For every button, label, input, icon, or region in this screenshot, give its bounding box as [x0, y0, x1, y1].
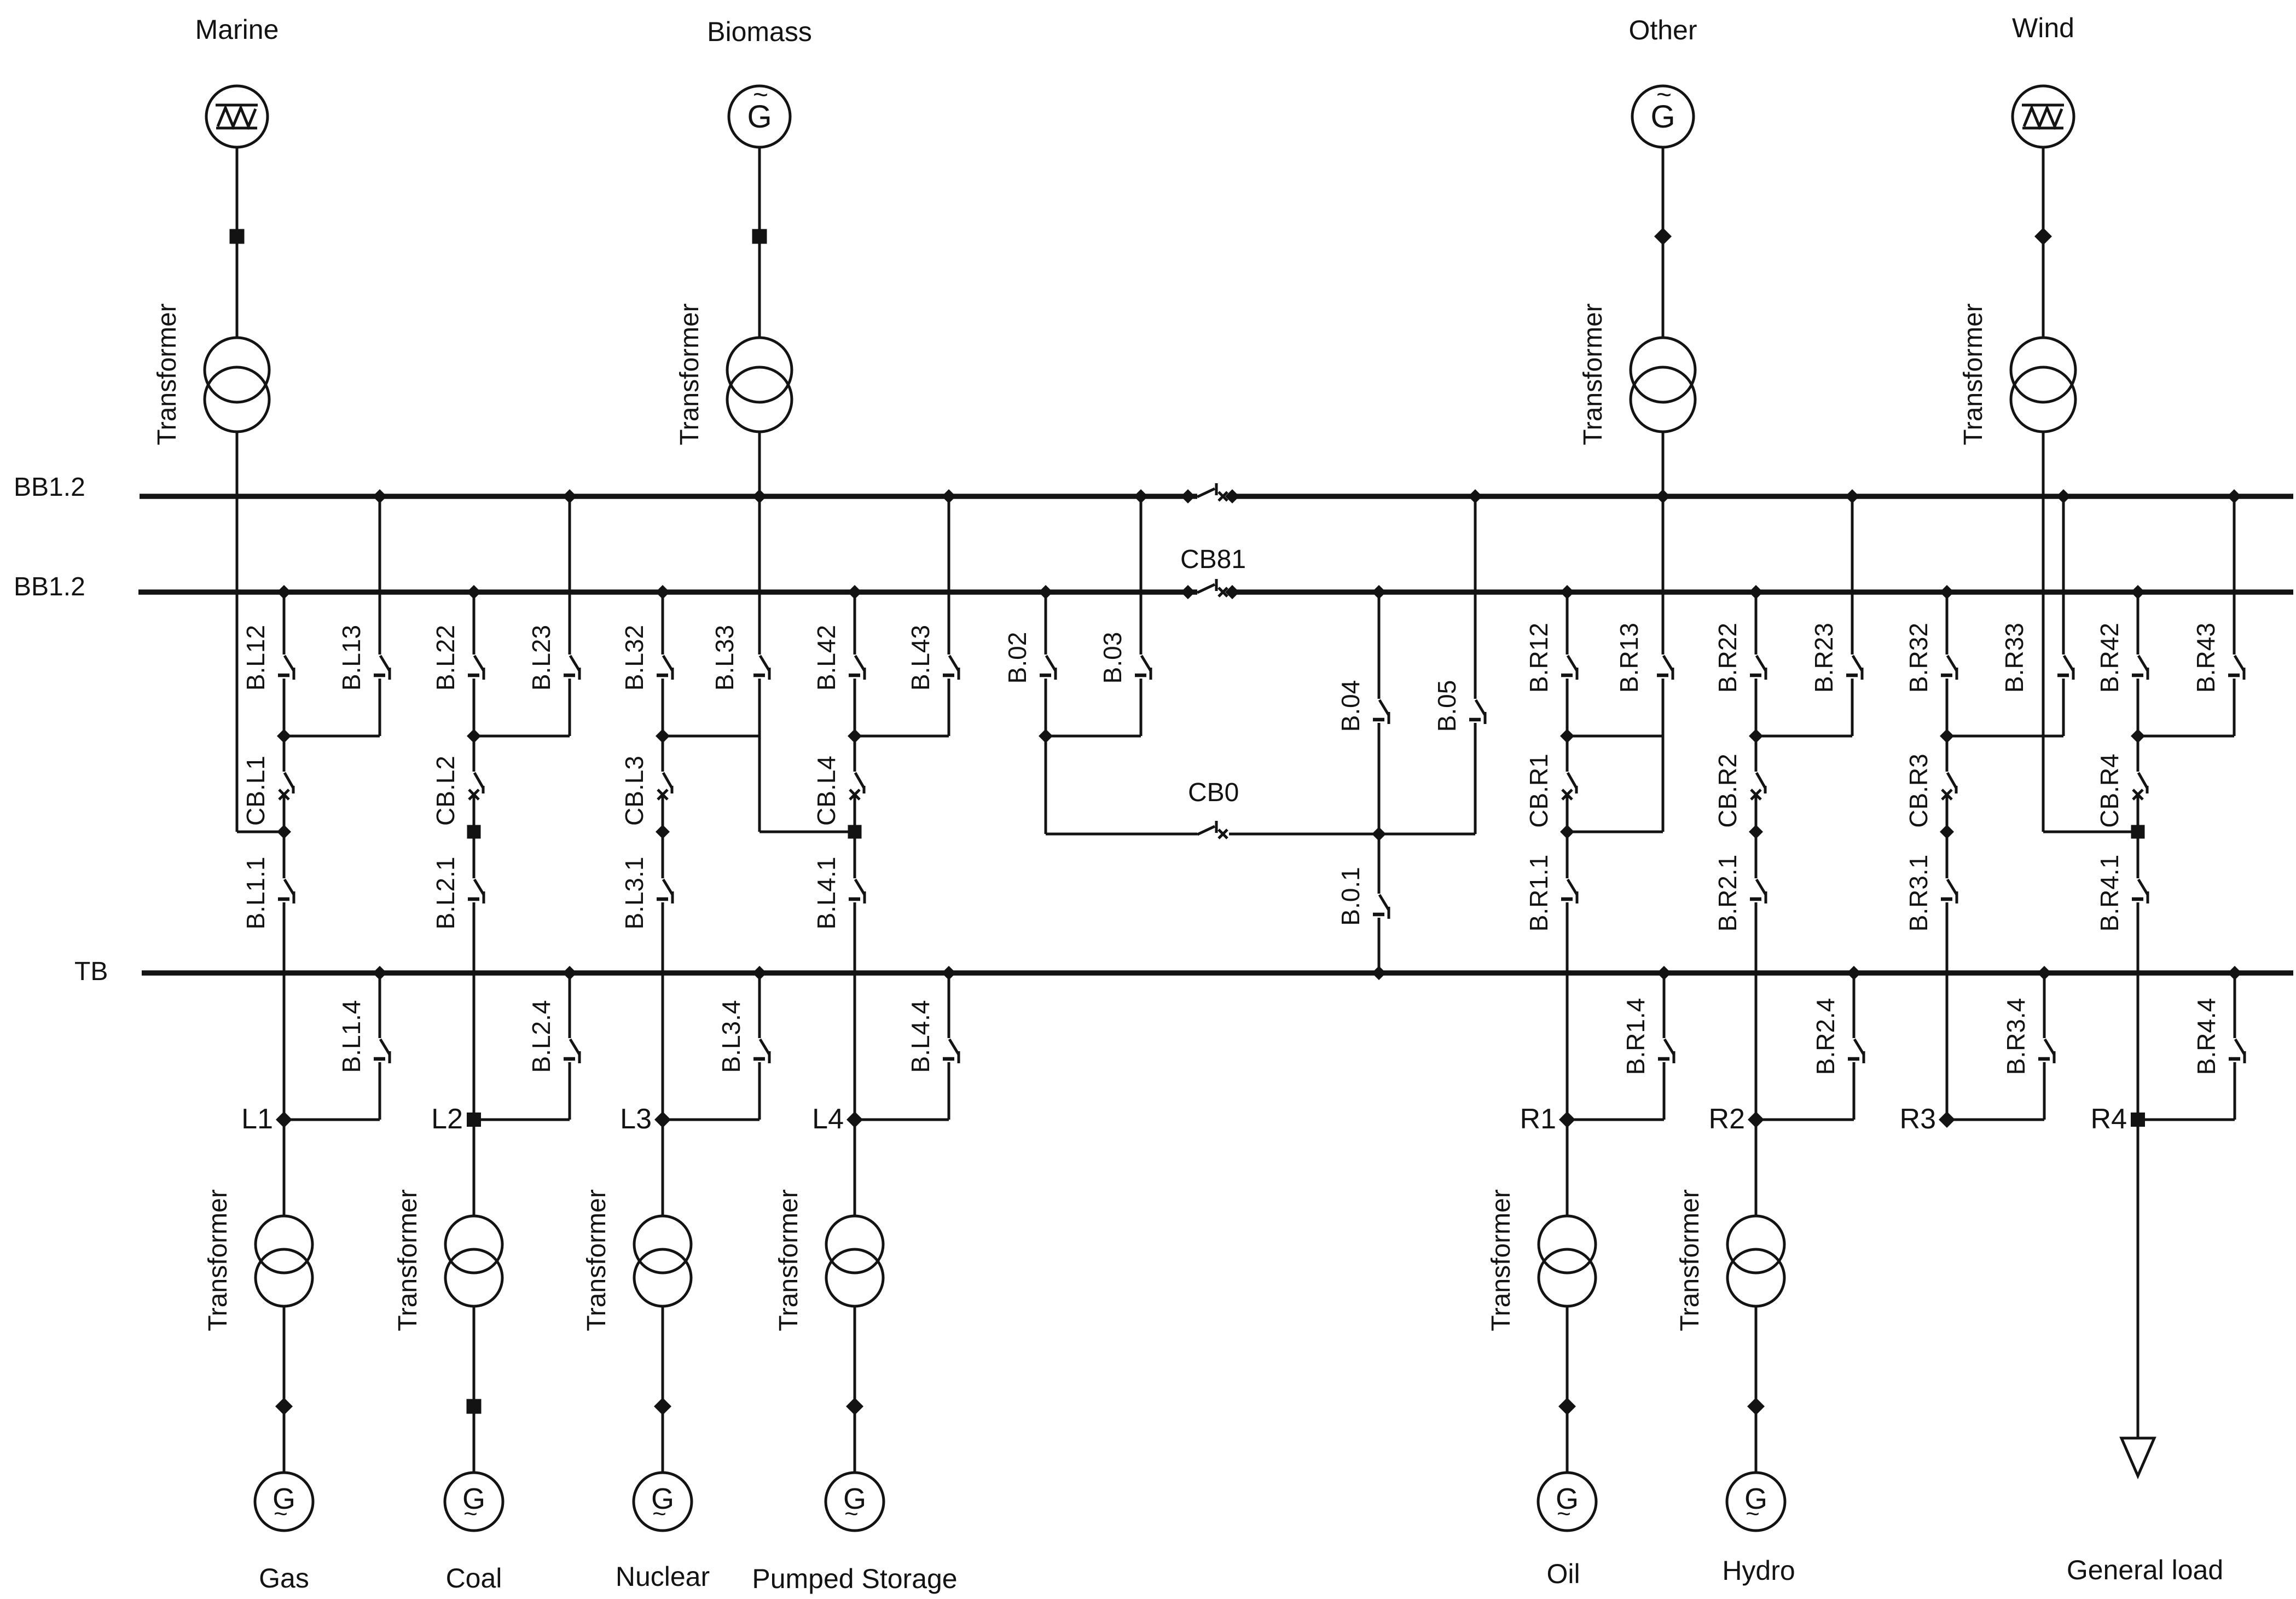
- svg-text:CB.R3: CB.R3: [1904, 754, 1933, 827]
- breaker CB.L3: [662, 736, 664, 772]
- svg-text:B.L43: B.L43: [906, 625, 935, 691]
- svg-text:~: ~: [274, 1500, 288, 1527]
- node L3: [654, 1111, 671, 1128]
- svg-text:Nuclear: Nuclear: [616, 1561, 710, 1592]
- svg-text:Marine: Marine: [195, 14, 279, 45]
- wire R4 column TB to node: [2137, 973, 2140, 1120]
- wire junction connector R4 upper: [2138, 735, 2234, 738]
- svg-text:L4: L4: [812, 1103, 844, 1135]
- wire R3 column TB to node: [1946, 973, 1949, 1120]
- busbar TB: [142, 970, 2293, 976]
- svg-text:B.R32: B.R32: [1904, 623, 1933, 693]
- node R2: [1748, 1111, 1764, 1128]
- marker on L1 lower feeder: [275, 1398, 293, 1415]
- transformer L4: [826, 1216, 883, 1273]
- node R1 group: disconnect B.R12 column: [1560, 585, 1574, 599]
- node junction L1 lower: [277, 825, 291, 839]
- svg-text:CB.R1: CB.R1: [1524, 754, 1553, 827]
- svg-text:B.L23: B.L23: [527, 625, 555, 691]
- svg-text:B.L13: B.L13: [337, 625, 366, 691]
- svg-text:Coal: Coal: [446, 1563, 502, 1594]
- node L3 group: disconnect B.L32 column: [656, 585, 670, 599]
- node L2 group: disconnect B.L22 column: [467, 585, 481, 599]
- svg-text:B.R43: B.R43: [2191, 623, 2220, 693]
- svg-text:R2: R2: [1709, 1103, 1745, 1135]
- svg-text:L1: L1: [241, 1103, 273, 1135]
- disconnect B.03 column: [1134, 489, 1148, 503]
- wire Marine jog to L1 lower junction: [237, 831, 284, 833]
- generator Gas: [255, 1473, 313, 1531]
- node R2 group: disconnect B.R22 column: [1749, 585, 1763, 599]
- node junction L3 upper: [656, 729, 670, 743]
- disconnect B.R23 column: [1845, 489, 1859, 503]
- svg-text:TB: TB: [74, 957, 108, 986]
- marker on Other feeder: [1654, 228, 1672, 245]
- generator source Marine: [206, 86, 268, 147]
- svg-text:R4: R4: [2091, 1103, 2127, 1135]
- wire Other jog to R1 lower junction: [1567, 831, 1663, 833]
- wire L1 column TB to node: [283, 973, 286, 1120]
- node junction L3 lower: [656, 825, 670, 839]
- svg-text:B.L2.1: B.L2.1: [431, 857, 460, 930]
- disconnect B.04: [1372, 585, 1386, 599]
- svg-text:Gas: Gas: [259, 1563, 309, 1594]
- svg-text:BB1.2: BB1.2: [14, 572, 85, 601]
- node B.0.1 on TB: [1372, 966, 1386, 980]
- svg-text:L3: L3: [620, 1103, 652, 1135]
- wire R2 node to transformer: [1755, 1120, 1758, 1216]
- disconnect B.L2.1: [473, 832, 476, 878]
- svg-text:B.R33: B.R33: [2000, 623, 2028, 693]
- node junction R3 lower: [1940, 825, 1954, 839]
- svg-text:Hydro: Hydro: [1722, 1555, 1795, 1586]
- disconnect B.R43 column: [2227, 489, 2241, 503]
- wire Marine transformer down: [236, 432, 239, 832]
- marker on R1 lower feeder: [1558, 1398, 1576, 1415]
- svg-text:~: ~: [463, 1500, 478, 1527]
- disconnect B.R3.4 bypass: [2037, 966, 2051, 980]
- node junction L4 upper: [848, 729, 862, 743]
- svg-text:CB.R2: CB.R2: [1713, 754, 1742, 827]
- svg-text:Other: Other: [1628, 15, 1697, 45]
- svg-text:B.R1.1: B.R1.1: [1524, 855, 1553, 932]
- node junction B.0 upper: [1039, 729, 1053, 743]
- svg-text:~: ~: [1656, 80, 1672, 109]
- svg-text:General load: General load: [2067, 1555, 2223, 1585]
- wire junction connector L1 upper: [284, 735, 380, 738]
- disconnect B.R2.1: [1755, 832, 1758, 878]
- svg-text:B.05: B.05: [1433, 680, 1461, 732]
- svg-text:~: ~: [652, 1500, 666, 1527]
- svg-text:B.L12: B.L12: [241, 625, 270, 691]
- disconnect B.R2.4 bypass: [1847, 966, 1861, 980]
- svg-text:BB1.2: BB1.2: [14, 473, 85, 502]
- node junction L4 lower: [848, 825, 862, 839]
- breaker CB.L1: [283, 736, 286, 772]
- node R4: [2131, 1113, 2145, 1127]
- svg-text:B.R2.4: B.R2.4: [1811, 998, 1840, 1075]
- svg-text:CB.L1: CB.L1: [241, 756, 270, 826]
- wire L3 node to transformer: [662, 1120, 664, 1216]
- wire L2 column TB to node: [473, 973, 476, 1120]
- node R1: [1559, 1111, 1575, 1128]
- disconnect B.0.1: [1378, 834, 1381, 894]
- node junction L1 upper: [277, 729, 291, 743]
- marker on R2 lower feeder: [1747, 1398, 1765, 1415]
- disconnect B.R4.4 bypass: [2228, 966, 2242, 980]
- disconnect B.L43 column: [942, 489, 956, 503]
- disconnect B.L33 (on feeder column): [760, 656, 769, 671]
- disconnect B.L4.4 bypass: [942, 966, 956, 980]
- wire L1 transformer to generator: [283, 1306, 286, 1473]
- wire junction connector L4 upper: [855, 735, 949, 738]
- transformer L3: [634, 1216, 691, 1273]
- svg-text:CB0: CB0: [1188, 778, 1239, 807]
- svg-text:Transformer: Transformer: [1487, 1189, 1516, 1331]
- generator Oil: [1538, 1473, 1596, 1531]
- node junction R1 upper: [1560, 729, 1574, 743]
- node L1 group: disconnect B.L12 column: [277, 585, 291, 599]
- disconnect B.R33 column: [2056, 489, 2071, 503]
- node Other feeder on BB1.2 upper: [1656, 489, 1670, 503]
- disconnect B.L13 column: [373, 489, 387, 503]
- svg-text:Transformer: Transformer: [1959, 303, 1988, 445]
- node R4 group: disconnect B.R42 column: [2131, 585, 2145, 599]
- svg-text:Transformer: Transformer: [582, 1189, 611, 1331]
- busbar BB1.2 (upper): [140, 494, 1197, 499]
- svg-text:B.L3.4: B.L3.4: [717, 1000, 745, 1073]
- svg-text:CB.L4: CB.L4: [812, 756, 840, 826]
- wire Other generator to transformer: [1662, 147, 1665, 338]
- wire B.0 column down to CB0: [1045, 736, 1047, 834]
- node R3: [1939, 1111, 1955, 1128]
- svg-text:B.R3.4: B.R3.4: [2002, 998, 2030, 1075]
- busbar BB1.2 (lower): [138, 589, 1197, 595]
- node junction R4 lower: [2131, 825, 2145, 839]
- disconnect B.R4.1: [2137, 832, 2140, 878]
- transformer Marine: [205, 338, 269, 402]
- wire junction connector L2 upper: [474, 735, 570, 738]
- svg-text:B.0.1: B.0.1: [1336, 867, 1365, 925]
- marker on Biomass feeder: [752, 229, 767, 244]
- svg-text:CB.L3: CB.L3: [620, 756, 648, 826]
- svg-text:B.L1.1: B.L1.1: [241, 857, 270, 930]
- svg-text:B.L42: B.L42: [812, 625, 840, 691]
- disconnect B.R1.4 bypass: [1657, 966, 1671, 980]
- node junction R3 upper: [1940, 729, 1954, 743]
- wire Biomass jog to L4 lower junction: [759, 831, 855, 833]
- disconnect B.L3.1: [662, 832, 664, 878]
- disconnect B.L3.4 bypass: [752, 966, 767, 980]
- disconnect B.L4.1: [854, 832, 856, 878]
- load arrow (General load): [2121, 1438, 2154, 1476]
- node junction R2 lower: [1749, 825, 1763, 839]
- svg-text:Wind: Wind: [2012, 13, 2074, 43]
- generator source Other: [1632, 86, 1694, 147]
- wire L2 transformer to generator: [473, 1306, 476, 1473]
- generator Coal: [445, 1473, 503, 1531]
- marker on L3 lower feeder: [654, 1398, 671, 1415]
- svg-text:R3: R3: [1900, 1103, 1936, 1135]
- svg-text:Transformer: Transformer: [204, 1189, 233, 1331]
- svg-text:B.L3.1: B.L3.1: [620, 857, 648, 930]
- marker on L4 lower feeder: [846, 1398, 863, 1415]
- disconnect B.L1.1: [283, 832, 286, 878]
- wire Wind generator to transformer: [2042, 147, 2045, 338]
- transformer Wind: [2011, 338, 2075, 402]
- svg-text:Transformer: Transformer: [393, 1189, 422, 1331]
- disconnect B.02 column: [1039, 585, 1053, 599]
- generator Hydro: [1727, 1473, 1785, 1531]
- wire R1 node to transformer: [1566, 1120, 1569, 1216]
- wire junction connector B.0 upper: [1046, 735, 1141, 738]
- svg-text:Biomass: Biomass: [707, 16, 812, 47]
- svg-text:B.03: B.03: [1098, 632, 1127, 684]
- svg-text:B.L22: B.L22: [431, 625, 460, 691]
- breaker CB.L2: [473, 736, 476, 772]
- node R3 group: disconnect B.R32 column: [1940, 585, 1954, 599]
- node junction R1 lower: [1560, 825, 1574, 839]
- transformer R1: [1539, 1216, 1596, 1273]
- svg-text:B.R2.1: B.R2.1: [1713, 855, 1742, 932]
- breaker CB.R1: [1566, 736, 1569, 772]
- node junction L2 lower: [467, 825, 481, 839]
- wire R4 node to load arrow: [2137, 1120, 2140, 1438]
- marker on Marine feeder: [230, 229, 245, 244]
- svg-text:B.R12: B.R12: [1524, 623, 1553, 693]
- wire L3 transformer to generator: [662, 1306, 664, 1473]
- wire junction connector L3 upper: [663, 735, 759, 738]
- svg-text:B.R13: B.R13: [1615, 623, 1643, 693]
- node L2: [467, 1113, 481, 1127]
- breaker CB.R2: [1755, 736, 1758, 772]
- wire Wind transformer down: [2042, 432, 2045, 832]
- svg-text:Pumped Storage: Pumped Storage: [752, 1563, 957, 1594]
- generator Nuclear: [634, 1473, 692, 1531]
- svg-text:B.02: B.02: [1003, 632, 1031, 684]
- svg-text:CB.R4: CB.R4: [2095, 754, 2124, 827]
- breaker CB.L4: [854, 736, 856, 772]
- breaker CB0: [1046, 833, 1197, 836]
- wire Biomass generator to transformer: [758, 147, 761, 338]
- disconnect B.R13 (on feeder column): [1663, 656, 1673, 671]
- svg-text:Transformer: Transformer: [1675, 1189, 1704, 1331]
- generator source Biomass: [729, 86, 790, 147]
- breaker CB81 on BB1.2 upper: [1197, 489, 1215, 497]
- svg-text:CB81: CB81: [1180, 545, 1246, 574]
- disconnect B.R3.1: [1946, 832, 1949, 878]
- svg-text:B.04: B.04: [1336, 680, 1365, 732]
- svg-text:R1: R1: [1520, 1103, 1556, 1135]
- svg-text:L2: L2: [431, 1103, 463, 1135]
- breaker CB81 on BB1.2 lower: [1197, 584, 1215, 593]
- svg-text:B.L2.4: B.L2.4: [527, 1000, 555, 1073]
- svg-text:~: ~: [1557, 1500, 1571, 1527]
- svg-text:Oil: Oil: [1546, 1559, 1580, 1589]
- wire L4 node to transformer: [854, 1120, 856, 1216]
- wire L4 column TB to node: [854, 973, 856, 1120]
- svg-text:~: ~: [753, 80, 768, 109]
- svg-text:B.R23: B.R23: [1810, 623, 1838, 693]
- svg-text:B.R22: B.R22: [1713, 623, 1742, 693]
- marker on L2 lower feeder: [467, 1399, 482, 1414]
- transformer L2: [445, 1216, 502, 1273]
- wire L2 node to transformer: [473, 1120, 476, 1216]
- svg-text:B.R3.1: B.R3.1: [1904, 855, 1933, 932]
- generator Pumped Storage: [826, 1473, 884, 1531]
- disconnect B.R1.1: [1566, 832, 1569, 878]
- disconnect B.L1.4 bypass: [373, 966, 387, 980]
- node Biomass feeder on BB1.2 upper: [752, 489, 767, 503]
- transformer L1: [256, 1216, 312, 1273]
- wire junction connector R1 upper: [1567, 735, 1663, 738]
- svg-text:B.L4.1: B.L4.1: [812, 857, 840, 930]
- node L4 group: disconnect B.L42 column: [848, 585, 862, 599]
- breaker CB.R3: [1946, 736, 1949, 772]
- node L4: [846, 1111, 863, 1128]
- wire R2 transformer to generator: [1755, 1306, 1758, 1473]
- svg-text:B.L33: B.L33: [710, 625, 739, 691]
- wire Biomass transformer down: [758, 432, 761, 654]
- wire junction connector R2 upper: [1756, 735, 1852, 738]
- node L1: [276, 1111, 292, 1128]
- node junction R4 upper: [2131, 729, 2145, 743]
- svg-text:B.R42: B.R42: [2095, 623, 2124, 693]
- transformer Biomass: [727, 338, 792, 402]
- svg-text:Transformer: Transformer: [774, 1189, 803, 1331]
- node junction L2 upper: [467, 729, 481, 743]
- wire Marine generator to transformer: [236, 147, 239, 338]
- svg-text:B.R4.4: B.R4.4: [2192, 998, 2220, 1075]
- svg-text:~: ~: [844, 1500, 859, 1527]
- wire R2 column TB to node: [1755, 973, 1758, 1120]
- disconnect B.L23 column: [563, 489, 577, 503]
- svg-text:B.R1.4: B.R1.4: [1621, 998, 1650, 1075]
- svg-text:~: ~: [1746, 1500, 1760, 1527]
- svg-text:B.L1.4: B.L1.4: [337, 1000, 366, 1073]
- wire junction connector R3 upper: [1947, 735, 2063, 738]
- disconnect B.L2.4 bypass: [563, 966, 577, 980]
- breaker CB.R4: [2137, 736, 2140, 772]
- svg-text:CB.L2: CB.L2: [431, 756, 460, 826]
- svg-text:B.L4.4: B.L4.4: [906, 1000, 935, 1073]
- wire L3 column TB to node: [662, 973, 664, 1120]
- transformer R2: [1727, 1216, 1784, 1273]
- generator source Wind: [2013, 86, 2074, 147]
- svg-text:B.R4.1: B.R4.1: [2095, 855, 2124, 932]
- node junction CB0 right: [1372, 827, 1386, 841]
- wire R1 transformer to generator: [1566, 1306, 1569, 1473]
- svg-text:B.L32: B.L32: [620, 625, 648, 691]
- wire R1 column TB to node: [1566, 973, 1569, 1120]
- svg-text:Transformer: Transformer: [153, 303, 182, 445]
- wire Wind jog to R4 lower junction: [2043, 831, 2138, 833]
- marker on Wind feeder: [2034, 228, 2052, 245]
- svg-text:Transformer: Transformer: [1579, 303, 1608, 445]
- wire L4 transformer to generator: [854, 1306, 856, 1473]
- svg-text:Transformer: Transformer: [675, 303, 704, 445]
- transformer Other: [1631, 338, 1695, 402]
- wire Other transformer down: [1662, 432, 1665, 654]
- disconnect B.05: [1468, 489, 1482, 503]
- wire L1 node to transformer: [283, 1120, 286, 1216]
- node junction R2 upper: [1749, 729, 1763, 743]
